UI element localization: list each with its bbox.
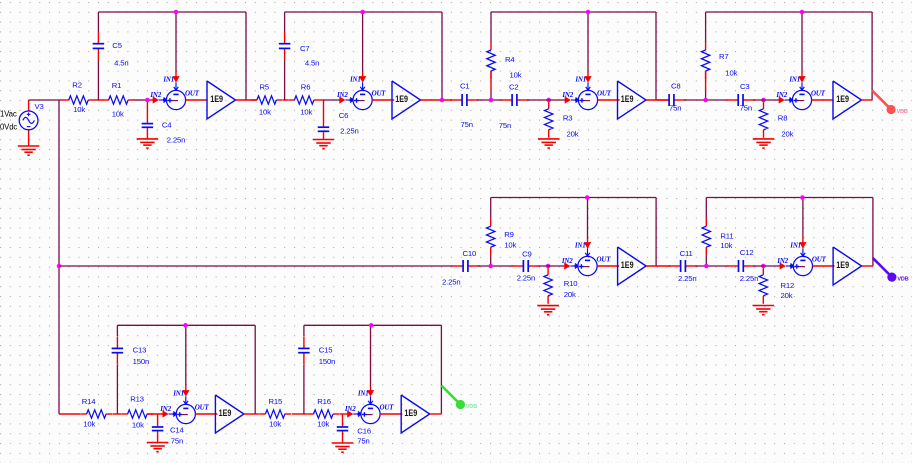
svg-text:10k: 10k: [73, 105, 85, 114]
svg-text:R14: R14: [82, 397, 97, 406]
svg-text:C15: C15: [319, 345, 333, 354]
svg-text:1E9: 1E9: [621, 260, 634, 270]
svg-text:C8: C8: [671, 82, 681, 91]
svg-text:IN2: IN2: [159, 405, 171, 413]
svg-text:10k: 10k: [720, 241, 732, 250]
svg-text:20k: 20k: [564, 290, 576, 299]
svg-text:C5: C5: [112, 41, 122, 50]
svg-text:4.5n: 4.5n: [305, 59, 319, 68]
svg-text:OUT: OUT: [597, 256, 612, 264]
svg-text:IN1: IN1: [162, 76, 174, 84]
svg-text:OUT: OUT: [185, 90, 200, 98]
svg-text:75n: 75n: [461, 120, 473, 129]
svg-text:R7: R7: [719, 52, 729, 61]
svg-text:IN2: IN2: [149, 91, 161, 99]
svg-text:C12: C12: [740, 248, 754, 257]
svg-text:IN2: IN2: [344, 405, 356, 413]
svg-text:1E9: 1E9: [219, 408, 232, 418]
svg-text:IN2: IN2: [561, 257, 573, 265]
svg-text:C10: C10: [463, 249, 477, 258]
svg-text:C9: C9: [522, 250, 532, 259]
svg-text:R6: R6: [301, 82, 311, 91]
svg-text:C1: C1: [460, 82, 470, 91]
svg-text:VDB: VDB: [897, 277, 908, 283]
svg-text:10k: 10k: [317, 420, 329, 429]
svg-text:IN1: IN1: [574, 76, 586, 84]
svg-text:10k: 10k: [504, 240, 516, 249]
svg-text:R8: R8: [778, 114, 788, 123]
svg-text:IN1: IN1: [172, 390, 184, 398]
svg-text:75n: 75n: [357, 436, 369, 445]
svg-text:IN1: IN1: [357, 390, 369, 398]
svg-text:VDB: VDB: [897, 109, 908, 115]
svg-text:10k: 10k: [112, 110, 124, 119]
svg-text:0Vdc: 0Vdc: [0, 123, 17, 132]
svg-text:C11: C11: [680, 249, 693, 258]
svg-text:IN1: IN1: [789, 242, 801, 250]
svg-text:C6: C6: [339, 111, 349, 120]
svg-text:10k: 10k: [300, 108, 312, 117]
svg-text:R1: R1: [112, 81, 122, 90]
svg-text:OUT: OUT: [812, 256, 827, 264]
svg-text:2.25n: 2.25n: [442, 278, 461, 287]
svg-text:20k: 20k: [567, 130, 579, 139]
svg-text:1E9: 1E9: [836, 260, 849, 270]
svg-text:V3: V3: [35, 102, 44, 111]
svg-text:75n: 75n: [669, 104, 681, 113]
svg-text:1Vac: 1Vac: [0, 110, 17, 119]
svg-text:IN1: IN1: [788, 76, 800, 84]
svg-text:R4: R4: [505, 55, 515, 64]
svg-text:C3: C3: [740, 82, 750, 91]
svg-text:2.25n: 2.25n: [167, 135, 186, 144]
svg-text:R2: R2: [72, 80, 82, 89]
svg-text:10k: 10k: [269, 420, 281, 429]
svg-text:R13: R13: [130, 395, 144, 404]
svg-text:R3: R3: [563, 114, 573, 123]
svg-text:75n: 75n: [499, 121, 511, 130]
svg-text:1E9: 1E9: [395, 94, 408, 104]
svg-text:20k: 20k: [781, 130, 793, 139]
svg-text:10k: 10k: [725, 69, 737, 78]
svg-text:4.5n: 4.5n: [114, 58, 128, 67]
svg-text:2.25n: 2.25n: [740, 274, 759, 283]
svg-text:2.25n: 2.25n: [517, 274, 536, 283]
svg-text:R5: R5: [260, 82, 270, 91]
svg-text:R10: R10: [564, 279, 578, 288]
svg-text:OUT: OUT: [811, 90, 826, 98]
svg-text:20k: 20k: [781, 291, 793, 300]
svg-text:IN1: IN1: [574, 242, 586, 250]
svg-text:1E9: 1E9: [621, 94, 634, 104]
svg-text:150n: 150n: [133, 357, 150, 366]
svg-text:OUT: OUT: [597, 90, 612, 98]
svg-text:IN1: IN1: [349, 76, 361, 84]
svg-text:75n: 75n: [740, 104, 752, 113]
svg-text:IN2: IN2: [775, 91, 787, 99]
svg-text:C16: C16: [357, 427, 371, 436]
svg-text:OUT: OUT: [372, 90, 387, 98]
svg-text:1E9: 1E9: [210, 94, 223, 104]
svg-text:C2: C2: [509, 83, 519, 92]
svg-text:C13: C13: [133, 345, 147, 354]
svg-text:C14: C14: [170, 426, 185, 435]
svg-text:2.25n: 2.25n: [678, 274, 697, 283]
svg-text:1E9: 1E9: [404, 408, 417, 418]
svg-text:VDB: VDB: [466, 404, 477, 410]
svg-text:IN2: IN2: [336, 91, 348, 99]
svg-text:OUT: OUT: [380, 404, 395, 412]
svg-text:150n: 150n: [319, 357, 336, 366]
svg-text:R16: R16: [317, 397, 331, 406]
svg-text:R15: R15: [269, 397, 283, 406]
svg-text:R9: R9: [504, 230, 514, 239]
svg-text:10k: 10k: [83, 420, 95, 429]
svg-text:10k: 10k: [510, 71, 522, 80]
svg-text:1E9: 1E9: [836, 94, 849, 104]
svg-text:10k: 10k: [132, 420, 144, 429]
svg-text:75n: 75n: [171, 436, 183, 445]
svg-text:2.25n: 2.25n: [340, 126, 359, 135]
svg-text:IN2: IN2: [776, 257, 788, 265]
svg-text:R12: R12: [781, 281, 795, 290]
svg-text:C7: C7: [300, 44, 310, 53]
svg-text:10k: 10k: [259, 108, 271, 117]
svg-text:R11: R11: [720, 232, 733, 241]
svg-text:C4: C4: [162, 121, 172, 130]
svg-text:IN2: IN2: [561, 91, 573, 99]
svg-text:OUT: OUT: [195, 404, 210, 412]
